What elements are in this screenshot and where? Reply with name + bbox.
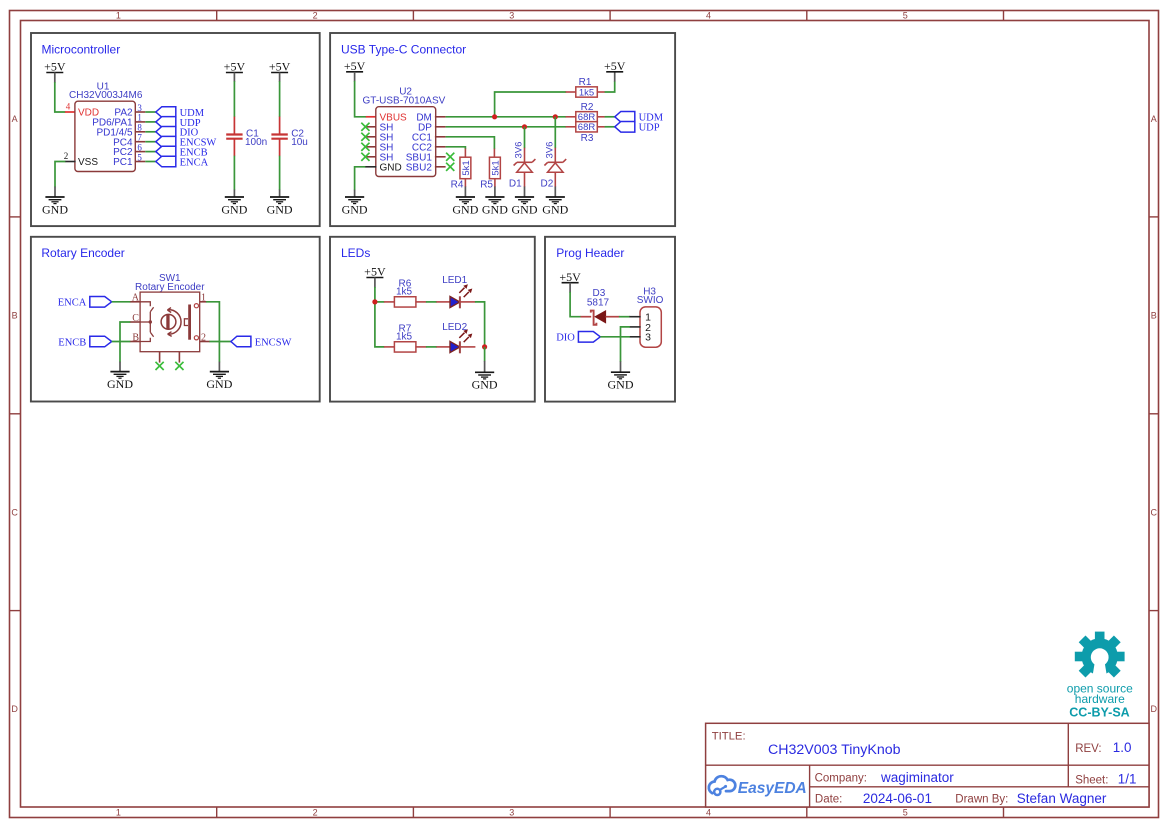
U2 pin names SH <box>380 122 394 163</box>
svg-text:Rotary Encoder: Rotary Encoder <box>41 246 124 260</box>
power stub GND Prog <box>620 361 622 372</box>
wire pin2 to GND <box>621 327 630 362</box>
svg-text:2024-06-01: 2024-06-01 <box>863 791 932 806</box>
svg-text:+5V: +5V <box>344 59 366 73</box>
SW1 pin stubs right <box>200 301 207 303</box>
svg-text:REV:: REV: <box>1075 743 1101 755</box>
ground GND (D2) <box>542 197 568 216</box>
svg-text:3: 3 <box>509 11 514 21</box>
svg-text:4: 4 <box>66 102 71 112</box>
switch SW1 body <box>140 292 200 352</box>
power stub +5V C1 <box>233 73 235 82</box>
svg-text:GND: GND <box>452 202 478 216</box>
IC U2 body <box>376 107 436 177</box>
svg-text:2: 2 <box>313 11 318 21</box>
svg-text:ENCA: ENCA <box>58 298 87 309</box>
svg-text:R4: R4 <box>451 179 464 190</box>
R6 left lead <box>384 301 395 303</box>
pin 4 VDD (red power pin) <box>65 111 76 113</box>
resistor R6 <box>394 297 416 307</box>
svg-text:SBU2: SBU2 <box>406 162 433 173</box>
LED1 anode lead <box>436 301 450 303</box>
svg-text:1: 1 <box>116 808 121 818</box>
svg-text:+5V: +5V <box>224 60 246 74</box>
svg-text:Microcontroller: Microcontroller <box>42 42 121 56</box>
wire +5V to C1 <box>233 81 235 117</box>
svg-text:GND: GND <box>380 162 402 173</box>
frame column ticks bottom <box>217 807 1004 818</box>
wire C2 to GND <box>279 156 281 190</box>
ground GND (SW1 1) <box>206 372 232 391</box>
LED LED2 <box>450 329 472 353</box>
svg-text:CC-BY-SA: CC-BY-SA <box>1069 705 1129 719</box>
junction +5V/R6 <box>372 299 377 304</box>
junction DM/R1 <box>492 114 497 119</box>
svg-text:GND: GND <box>608 378 634 392</box>
junction DM/D2 <box>553 114 558 119</box>
wire +5V to R6/R7 <box>375 287 385 347</box>
svg-text:C: C <box>11 507 18 517</box>
svg-text:100n: 100n <box>245 137 267 148</box>
svg-text:VSS: VSS <box>78 157 98 168</box>
resistor R5 <box>489 157 501 179</box>
D1 top lead <box>524 148 526 163</box>
U2 left SH pin stubs <box>366 127 377 157</box>
svg-text:4: 4 <box>706 11 711 21</box>
ground GND (U1) <box>42 197 68 216</box>
net flag ENCSW <box>231 336 292 348</box>
wire DM to D2 <box>554 117 556 148</box>
net flag DIO (prog) <box>556 332 600 344</box>
wire +5V to R6 <box>375 301 385 303</box>
svg-text:LED2: LED2 <box>442 322 467 333</box>
SW1 internal contacts <box>140 302 154 342</box>
wire pin 2 to ENCSW flag <box>209 341 231 343</box>
power stub GND U1 <box>54 187 56 197</box>
D3 right lead <box>606 316 620 318</box>
wire pin 1 to GND <box>206 302 219 363</box>
power stub GND D2 <box>554 187 556 198</box>
ground GND (C2) <box>267 197 293 216</box>
R4 top lead <box>464 149 466 158</box>
svg-text:5817: 5817 <box>587 298 610 309</box>
svg-text:C: C <box>1151 507 1158 517</box>
svg-text:A: A <box>12 114 18 124</box>
wire junction to GND <box>484 347 486 362</box>
wire DIO to pin3 <box>600 336 630 338</box>
svg-text:GND: GND <box>221 202 247 216</box>
power stub GND SW1-1 <box>218 362 220 372</box>
svg-text:GND: GND <box>107 377 133 391</box>
R7 left lead <box>384 346 395 348</box>
svg-text:2: 2 <box>313 808 318 818</box>
svg-text:D: D <box>1151 704 1158 714</box>
frame row ticks left <box>10 217 21 611</box>
svg-text:ENCB: ENCB <box>58 337 86 348</box>
svg-text:GND: GND <box>472 378 498 392</box>
frame row labels left <box>11 114 18 714</box>
U2 GND pin stub <box>365 166 377 168</box>
svg-text:5: 5 <box>903 11 908 21</box>
ground GND (U2) <box>342 197 368 216</box>
svg-text:5k1: 5k1 <box>461 160 472 175</box>
section box Prog Header <box>545 237 675 402</box>
H3 pin names 1 2 3 <box>645 312 651 344</box>
frame row labels right <box>1151 114 1158 714</box>
power +5V (U1) <box>44 60 66 74</box>
power stub GND SW1-C <box>119 362 121 372</box>
SW1 rotary knob circle <box>161 314 176 329</box>
title block dividers <box>706 723 1149 807</box>
header H3 body <box>640 307 661 347</box>
svg-text:hardware: hardware <box>1075 692 1125 706</box>
net flag UDP (U1) <box>156 117 201 129</box>
R5 top lead <box>493 149 495 158</box>
op-amp?? no: IC U1 body <box>75 101 135 171</box>
no-connect X marks on SH pins <box>361 123 369 161</box>
wire R2 to UDM flag <box>605 116 615 118</box>
svg-text:1/1: 1/1 <box>1118 771 1137 786</box>
pin VBUS (red power pin) <box>366 116 377 118</box>
wire DM net <box>446 116 567 118</box>
EasyEDA logo cloud <box>709 776 735 795</box>
diode D1 (zener) <box>514 159 536 172</box>
svg-text:+5V: +5V <box>559 270 581 284</box>
svg-text:Date:: Date: <box>815 794 843 806</box>
net flag ENCA (U1) <box>156 156 209 168</box>
svg-text:DIO: DIO <box>556 333 575 344</box>
svg-text:GND: GND <box>542 202 568 216</box>
wire R7 to LED2 <box>426 346 437 348</box>
wire VSS to GND <box>55 162 65 188</box>
resistor R1 <box>576 87 598 99</box>
wire R1 branch vertical <box>495 92 567 117</box>
svg-text:5: 5 <box>903 808 908 818</box>
ground GND (C1) <box>221 197 247 216</box>
LED2 cathode lead <box>460 346 476 348</box>
power +5V (C2) <box>269 60 291 74</box>
ground GND (Prog) <box>608 372 634 391</box>
section box Rotary Encoder <box>31 237 320 402</box>
diode D2 (zener) <box>544 159 566 172</box>
svg-text:1k5: 1k5 <box>396 331 413 342</box>
U2 right pin names <box>406 112 433 173</box>
net flag ENCA <box>58 297 112 309</box>
section box LEDs <box>330 237 535 402</box>
svg-text:CH32V003J4M6: CH32V003J4M6 <box>69 90 143 101</box>
svg-text:R1: R1 <box>579 77 592 88</box>
H3 pin stubs <box>629 317 640 337</box>
power stub +5V R1 <box>614 72 616 82</box>
ground GND (SW1 C) <box>107 372 133 391</box>
U1 right pin stubs <box>135 112 145 162</box>
svg-text:UDP: UDP <box>639 123 660 134</box>
svg-text:GND: GND <box>512 202 538 216</box>
svg-text:CH32V003 TinyKnob: CH32V003 TinyKnob <box>768 742 901 758</box>
power stub +5V LEDs <box>374 278 376 288</box>
wire DP net <box>446 126 567 128</box>
wire R3 to UDP flag <box>605 126 615 128</box>
svg-text:GND: GND <box>42 202 68 216</box>
svg-text:LED1: LED1 <box>442 275 467 286</box>
svg-text:R5: R5 <box>480 179 493 190</box>
resistor R1 leads <box>566 91 577 93</box>
svg-text:1: 1 <box>116 11 121 21</box>
power stub GND R4 <box>464 187 466 198</box>
svg-text:Prog Header: Prog Header <box>556 246 624 260</box>
pin 2 VSS stub <box>65 161 76 163</box>
R4 bottom lead <box>464 178 466 187</box>
frame column labels bottom <box>116 808 908 818</box>
svg-text:GND: GND <box>482 202 508 216</box>
wire +5V to VBUS <box>355 81 367 117</box>
svg-text:LEDs: LEDs <box>341 246 370 260</box>
power stub GND LEDs <box>484 361 486 372</box>
power +5V (R1) <box>604 59 626 73</box>
power stub +5V Prog <box>569 283 571 293</box>
D2 top lead <box>554 148 556 163</box>
resistor R2 <box>576 112 598 124</box>
net flag UDP <box>615 122 660 134</box>
R6 right lead <box>415 301 426 303</box>
wire ENCB to pin B <box>112 341 131 343</box>
wire +5V to VDD <box>55 82 66 112</box>
wire LED1 to junction <box>475 302 485 348</box>
ground GND (D1) <box>512 197 538 216</box>
title block outline <box>706 723 1149 807</box>
power stub +5V C2 <box>279 73 281 82</box>
wire R6 to LED1 <box>426 301 437 303</box>
resistor R3 leads <box>566 126 577 128</box>
resistor R7 <box>394 342 416 352</box>
wire +5V to D3 <box>570 292 581 317</box>
frame column labels top <box>116 11 908 21</box>
section box Microcontroller <box>31 33 320 226</box>
frame column ticks top <box>217 11 1004 21</box>
D2 bottom lead <box>554 172 556 187</box>
svg-text:GND: GND <box>206 377 232 391</box>
svg-text:+5V: +5V <box>269 60 291 74</box>
section box USB Type-C Connector <box>330 33 675 226</box>
net flag DIO (U1) <box>156 127 199 139</box>
SW1 rotation arrows <box>167 308 181 337</box>
net flag UDM <box>615 112 664 124</box>
svg-text:Company:: Company: <box>815 773 867 785</box>
no-connect X marks on SBU pins <box>446 153 454 161</box>
svg-text:D1: D1 <box>509 179 522 190</box>
wire ENCA to pin A <box>112 301 131 303</box>
svg-text:3V6: 3V6 <box>514 142 525 159</box>
D3 anode-side lead (left) <box>581 316 592 318</box>
svg-text:R3: R3 <box>581 133 594 144</box>
junction LED2/GND <box>482 344 487 349</box>
wire pin C to GND <box>120 322 130 362</box>
U1 right pin numbers <box>137 103 142 163</box>
svg-text:SWIO: SWIO <box>637 295 664 306</box>
SW1 bottom pin stubs <box>159 352 161 363</box>
SW1 contact circles <box>194 304 198 308</box>
svg-text:D: D <box>11 704 18 714</box>
svg-text:68R: 68R <box>578 122 596 133</box>
wire R1 to +5V <box>605 81 615 92</box>
capacitor C1 <box>226 117 242 157</box>
svg-text:Stefan Wagner: Stefan Wagner <box>1017 791 1107 806</box>
OSHW logo gear <box>1075 632 1125 680</box>
svg-text:1.0: 1.0 <box>1113 740 1132 755</box>
svg-text:GT-USB-7010ASV: GT-USB-7010ASV <box>362 95 445 106</box>
svg-text:D2: D2 <box>541 179 554 190</box>
svg-text:GND: GND <box>342 202 368 216</box>
svg-text:3V6: 3V6 <box>544 142 555 159</box>
LED LED1 <box>450 284 472 308</box>
resistor R3 <box>576 122 598 134</box>
net flag ENCB <box>58 336 111 348</box>
svg-text:10u: 10u <box>291 137 308 148</box>
svg-text:A: A <box>1151 114 1157 124</box>
wire D3 to pin1 <box>619 316 630 318</box>
capacitor C2 <box>271 117 287 157</box>
diode D3 (schottky, filled) <box>591 311 606 325</box>
svg-text:EasyEDA: EasyEDA <box>738 780 807 797</box>
svg-text:+5V: +5V <box>364 265 386 279</box>
wire C1 to GND <box>233 156 235 190</box>
R5 bottom lead <box>494 178 496 187</box>
svg-text:1k5: 1k5 <box>396 286 413 297</box>
LED2 anode lead <box>436 346 450 348</box>
svg-text:Rotary Encoder: Rotary Encoder <box>135 282 205 293</box>
ground GND (LEDs) <box>472 372 498 391</box>
net flag ENCB (U1) <box>156 146 208 158</box>
wires U1 pins to net flags <box>145 112 156 162</box>
ground GND (R5) <box>482 197 508 216</box>
power stub GND D1 <box>524 187 526 198</box>
svg-text:Sheet:: Sheet: <box>1075 774 1108 786</box>
svg-text:3: 3 <box>645 332 651 344</box>
power +5V (C1) <box>224 60 246 74</box>
svg-text:+5V: +5V <box>604 59 626 73</box>
power stub GND R5 <box>494 187 496 198</box>
U1 right pin names <box>92 108 133 169</box>
wire +5V to C2 <box>279 81 281 117</box>
power stub GND C2 <box>279 190 281 198</box>
power stub +5V U1 <box>54 73 56 83</box>
svg-text:wagiminator: wagiminator <box>880 770 954 785</box>
power +5V (Prog) <box>559 270 581 284</box>
U2 right pin stubs <box>435 117 446 167</box>
power +5V (U2) <box>344 59 366 73</box>
power stub GND U2 <box>354 190 356 197</box>
net flag UDM (U1) <box>156 107 205 119</box>
svg-text:3: 3 <box>509 808 514 818</box>
junction DP/D1 <box>522 124 527 129</box>
svg-text:B: B <box>12 311 18 321</box>
svg-text:B: B <box>1151 311 1157 321</box>
power stub GND C1 <box>233 190 235 198</box>
svg-text:USB Type-C Connector: USB Type-C Connector <box>341 42 466 56</box>
power +5V (LEDs) <box>364 265 386 279</box>
svg-text:PC1: PC1 <box>113 157 133 168</box>
wire CC2 to R4 <box>446 147 466 149</box>
D1 bottom lead <box>524 172 526 187</box>
svg-text:GND: GND <box>267 202 293 216</box>
frame row ticks right <box>1149 217 1159 611</box>
svg-text:ENCSW: ENCSW <box>255 337 292 348</box>
svg-text:ENCA: ENCA <box>180 157 209 168</box>
LED1 cathode lead <box>460 301 476 303</box>
wire DP to D1 <box>524 127 526 148</box>
SW1 pushbutton bar <box>188 305 191 340</box>
svg-text:TITLE:: TITLE: <box>712 731 746 743</box>
svg-text:1k5: 1k5 <box>579 87 594 98</box>
net flag ENCSW (U1) <box>156 136 217 148</box>
no-connect X marks SW1 bottom <box>156 362 164 370</box>
power stub +5V U2 <box>354 72 356 82</box>
svg-text:R2: R2 <box>581 102 594 113</box>
wire U2 GND to ground <box>355 167 366 191</box>
wire CC1 to R5 <box>446 137 495 149</box>
R7 right lead <box>415 346 426 348</box>
SW1 pin stubs left <box>130 301 140 303</box>
svg-text:Drawn By:: Drawn By: <box>955 794 1008 806</box>
svg-text:2: 2 <box>64 151 69 161</box>
svg-text:4: 4 <box>706 808 711 818</box>
resistor R2 leads <box>566 116 577 118</box>
ground GND (R4) <box>452 197 478 216</box>
resistor R4 <box>460 157 472 179</box>
svg-text:+5V: +5V <box>44 60 66 74</box>
svg-text:5k1: 5k1 <box>490 160 501 175</box>
